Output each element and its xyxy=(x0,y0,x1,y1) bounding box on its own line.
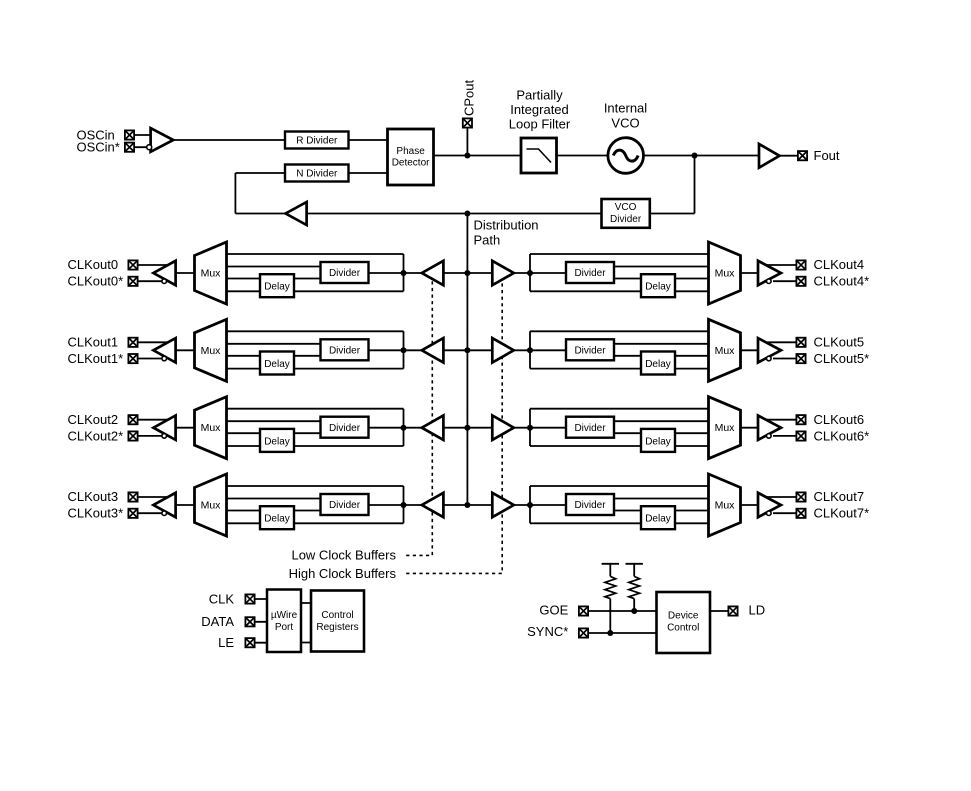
svg-text:CLKout5: CLKout5 xyxy=(814,335,865,350)
svg-text:CLKout1*: CLKout1* xyxy=(68,351,124,366)
svg-text:Delay: Delay xyxy=(645,359,671,370)
svg-text:Mux: Mux xyxy=(201,422,222,434)
svg-text:CPout: CPout xyxy=(462,79,477,116)
svg-text:CLKout0: CLKout0 xyxy=(68,257,119,272)
svg-text:Mux: Mux xyxy=(715,268,736,280)
svg-text:Divider: Divider xyxy=(574,268,606,279)
svg-text:VCO: VCO xyxy=(615,202,637,213)
svg-text:CLKout1: CLKout1 xyxy=(68,335,119,350)
svg-text:Divider: Divider xyxy=(329,268,361,279)
svg-text:Distribution: Distribution xyxy=(474,218,539,233)
svg-text:Delay: Delay xyxy=(264,436,290,447)
svg-text:Port: Port xyxy=(275,622,294,633)
svg-text:DATA: DATA xyxy=(201,614,234,629)
svg-text:GOE: GOE xyxy=(539,603,568,618)
svg-text:N Divider: N Divider xyxy=(296,168,338,179)
svg-text:High Clock Buffers: High Clock Buffers xyxy=(289,566,397,581)
svg-text:CLKout3: CLKout3 xyxy=(68,489,119,504)
svg-text:Delay: Delay xyxy=(264,514,290,525)
svg-text:Delay: Delay xyxy=(264,359,290,370)
svg-text:Divider: Divider xyxy=(329,423,361,434)
svg-text:CLKout4: CLKout4 xyxy=(814,257,865,272)
svg-text:CLKout5*: CLKout5* xyxy=(814,351,870,366)
svg-text:CLKout3*: CLKout3* xyxy=(68,506,124,521)
svg-text:Mux: Mux xyxy=(715,422,736,434)
svg-text:SYNC*: SYNC* xyxy=(527,624,568,639)
svg-text:Divider: Divider xyxy=(574,423,606,434)
svg-text:CLKout7: CLKout7 xyxy=(814,489,865,504)
svg-text:CLKout0*: CLKout0* xyxy=(68,274,124,289)
svg-text:OSCin*: OSCin* xyxy=(77,140,120,155)
svg-text:CLKout2*: CLKout2* xyxy=(68,428,124,443)
svg-text:Partially: Partially xyxy=(516,88,563,103)
svg-text:Loop Filter: Loop Filter xyxy=(509,117,571,132)
svg-text:Divider: Divider xyxy=(329,345,361,356)
svg-text:Divider: Divider xyxy=(610,214,642,225)
svg-text:Delay: Delay xyxy=(264,282,290,293)
svg-text:Device: Device xyxy=(668,610,699,621)
svg-text:Mux: Mux xyxy=(715,500,736,512)
svg-text:Delay: Delay xyxy=(645,282,671,293)
svg-text:CLKout7*: CLKout7* xyxy=(814,506,870,521)
svg-text:Fout: Fout xyxy=(814,148,840,163)
svg-text:LD: LD xyxy=(749,603,766,618)
svg-text:CLKout4*: CLKout4* xyxy=(814,274,870,289)
svg-text:R Divider: R Divider xyxy=(296,135,338,146)
svg-text:Mux: Mux xyxy=(201,345,222,357)
svg-text:Phase: Phase xyxy=(396,146,425,157)
svg-text:Mux: Mux xyxy=(201,500,222,512)
svg-text:Delay: Delay xyxy=(645,514,671,525)
svg-text:Low Clock Buffers: Low Clock Buffers xyxy=(291,548,396,563)
svg-text:CLKout2: CLKout2 xyxy=(68,412,119,427)
svg-text:Internal: Internal xyxy=(604,101,647,116)
svg-text:Integrated: Integrated xyxy=(510,102,569,117)
svg-text:µWire: µWire xyxy=(271,610,298,621)
svg-text:CLKout6*: CLKout6* xyxy=(814,428,870,443)
svg-text:Registers: Registers xyxy=(316,622,358,633)
svg-text:Detector: Detector xyxy=(392,158,430,169)
svg-text:VCO: VCO xyxy=(611,116,639,131)
svg-text:Mux: Mux xyxy=(201,268,222,280)
svg-text:Divider: Divider xyxy=(574,500,606,511)
svg-text:Divider: Divider xyxy=(574,345,606,356)
svg-text:CLKout6: CLKout6 xyxy=(814,412,865,427)
svg-text:Mux: Mux xyxy=(715,345,736,357)
svg-text:Control: Control xyxy=(667,623,699,634)
svg-text:Divider: Divider xyxy=(329,500,361,511)
svg-text:Delay: Delay xyxy=(645,436,671,447)
svg-text:Path: Path xyxy=(474,233,501,248)
svg-text:CLK: CLK xyxy=(209,592,235,607)
svg-text:Control: Control xyxy=(321,610,353,621)
svg-text:LE: LE xyxy=(218,635,234,650)
